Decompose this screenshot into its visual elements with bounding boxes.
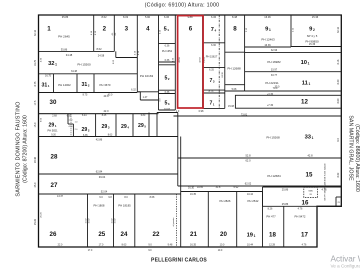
svg-text:17.5: 17.5 xyxy=(34,100,37,105)
boundary parcels 5-6 xyxy=(174,15,176,110)
svg-text:42.86: 42.86 xyxy=(96,138,103,142)
boundary parcels 6-7 (under red) xyxy=(202,15,204,108)
svg-text:PH 12463: PH 12463 xyxy=(261,38,275,42)
svg-text:6.80: 6.80 xyxy=(141,115,146,117)
svg-text:12.28: 12.28 xyxy=(269,243,276,246)
row 11 bottom line xyxy=(245,90,342,92)
svg-text:10.02: 10.02 xyxy=(111,218,113,224)
svg-text:26: 26 xyxy=(50,231,57,238)
boundary parcels 1-2 xyxy=(93,15,95,51)
parcel 32 row bottom line xyxy=(39,73,138,75)
svg-text:35.86: 35.86 xyxy=(61,47,68,51)
svg-text:9.0: 9.0 xyxy=(148,250,152,252)
parcel 16 bottom line xyxy=(263,205,342,207)
boundary 24-22 xyxy=(134,194,136,247)
svg-text:6.36: 6.36 xyxy=(211,44,216,47)
boundary parcels 3-4 xyxy=(136,15,138,92)
dashed line in 29 row xyxy=(70,114,72,137)
svg-text:76: 76 xyxy=(337,202,340,204)
svg-text:4: 4 xyxy=(146,26,150,33)
svg-text:PH 22191: PH 22191 xyxy=(265,81,279,85)
svg-text:32.16: 32.16 xyxy=(34,29,37,36)
svg-text:18: 18 xyxy=(269,232,276,239)
svg-text:43.8: 43.8 xyxy=(103,94,109,98)
svg-text:2.68: 2.68 xyxy=(52,115,57,117)
svg-text:29 2: 29 2 xyxy=(82,127,90,133)
svg-text:PH 19268: PH 19268 xyxy=(266,136,280,140)
svg-text:S/E PH DESIGNAN ESE N DE CALLE: S/E PH DESIGNAN ESE N DE CALLE xyxy=(324,163,327,201)
svg-text:9.0: 9.0 xyxy=(160,98,162,102)
svg-text:42.0: 42.0 xyxy=(103,109,109,113)
svg-text:8.68: 8.68 xyxy=(150,196,155,199)
svg-text:2: 2 xyxy=(103,26,107,33)
svg-text:29 3: 29 3 xyxy=(102,124,110,130)
step box under PH 10163 xyxy=(137,91,140,93)
svg-text:35.86: 35.86 xyxy=(62,15,69,19)
svg-text:42.59: 42.59 xyxy=(200,56,202,62)
svg-text:7 3: 7 3 xyxy=(209,78,214,84)
svg-text:8.0: 8.0 xyxy=(337,138,340,142)
jagged boundary 29-1 29-2 xyxy=(67,114,69,124)
svg-text:PH 16982: PH 16982 xyxy=(267,60,281,64)
svg-text:25.86: 25.86 xyxy=(282,188,289,192)
svg-text:16.35: 16.35 xyxy=(190,243,197,246)
svg-text:6.92: 6.92 xyxy=(234,186,239,189)
svg-text:42.8: 42.8 xyxy=(307,153,313,157)
boundary parcels 8-9 xyxy=(244,15,246,91)
svg-text:17: 17 xyxy=(301,232,308,239)
parcel 1 bottom line xyxy=(39,50,94,52)
svg-text:27: 27 xyxy=(51,182,58,189)
boundary 31-2 right xyxy=(93,74,95,93)
svg-text:8.0: 8.0 xyxy=(124,196,128,199)
svg-text:5.08: 5.08 xyxy=(232,88,237,91)
svg-text:10.02: 10.02 xyxy=(88,218,90,224)
svg-text:15: 15 xyxy=(306,172,313,179)
boundary parcels 9-1 9-2 xyxy=(290,15,292,47)
svg-text:6.36: 6.36 xyxy=(164,15,170,19)
svg-text:33 1: 33 1 xyxy=(305,135,314,141)
svg-text:4.76: 4.76 xyxy=(302,243,307,246)
line under PH 12688 xyxy=(225,90,245,92)
svg-text:31 2: 31 2 xyxy=(82,82,90,88)
parcel 5 subdivision line 3 xyxy=(159,64,176,66)
svg-text:PH 10163: PH 10163 xyxy=(140,74,154,78)
parcel 16 top line xyxy=(263,186,342,188)
svg-text:9.8: 9.8 xyxy=(108,196,112,199)
svg-text:62.02: 62.02 xyxy=(245,182,252,186)
svg-text:SM0: SM0 xyxy=(308,191,313,193)
parcel 15 left boundary xyxy=(177,158,179,186)
svg-text:15.0: 15.0 xyxy=(34,122,37,127)
parcel 5 subdivision line 4 xyxy=(159,89,176,91)
svg-text:8.45: 8.45 xyxy=(102,115,107,117)
svg-text:PH 9472: PH 9472 xyxy=(295,215,306,219)
row 10 top line xyxy=(245,52,342,54)
svg-text:8.75: 8.75 xyxy=(83,93,88,96)
svg-text:1.0: 1.0 xyxy=(75,122,79,124)
svg-text:8.63: 8.63 xyxy=(108,135,113,137)
svg-text:7 4: 7 4 xyxy=(211,27,217,33)
svg-text:52.04: 52.04 xyxy=(101,190,108,194)
parcel 31 row bottom line xyxy=(39,92,138,94)
svg-text:29 4: 29 4 xyxy=(121,124,129,130)
svg-text:PH 15627: PH 15627 xyxy=(206,55,218,59)
parcel 27 bottom line xyxy=(39,193,181,195)
svg-text:6.36: 6.36 xyxy=(165,59,170,62)
svg-text:8.33: 8.33 xyxy=(123,15,129,19)
svg-text:4.16: 4.16 xyxy=(138,50,140,55)
svg-text:9 1: 9 1 xyxy=(265,27,271,33)
svg-text:9.0: 9.0 xyxy=(148,243,152,246)
svg-text:4.14: 4.14 xyxy=(91,30,93,35)
svg-text:22: 22 xyxy=(153,231,160,238)
svg-text:5 1: 5 1 xyxy=(164,27,170,33)
svg-text:8.75: 8.75 xyxy=(34,81,37,86)
svg-text:12: 12 xyxy=(301,99,308,106)
svg-text:6.36: 6.36 xyxy=(165,45,170,48)
parcel 29 row top line xyxy=(39,113,158,115)
svg-text:4.76: 4.76 xyxy=(298,208,303,211)
svg-text:31.8: 31.8 xyxy=(216,186,221,189)
svg-text:PH 2826: PH 2826 xyxy=(220,199,231,203)
red highlight parcel 6 outline xyxy=(178,16,204,108)
boundary 29-2 right xyxy=(95,114,97,137)
parcel 7 subdivision line 1 xyxy=(203,42,225,44)
svg-text:8.30: 8.30 xyxy=(337,79,340,84)
step under parcel 2 xyxy=(115,51,117,57)
svg-text:6: 6 xyxy=(189,26,193,33)
svg-text:8.16: 8.16 xyxy=(337,59,340,64)
svg-text:1.10: 1.10 xyxy=(69,120,74,122)
boundary parcels 7-8 xyxy=(224,15,226,108)
svg-text:34.48: 34.48 xyxy=(71,70,78,73)
boundary parcels 4-5 xyxy=(158,15,160,110)
svg-text:PH 14002: PH 14002 xyxy=(58,83,71,87)
parcel 9-2 bottom line xyxy=(291,46,341,48)
parcel 7 subdivision line 4 xyxy=(203,92,225,94)
svg-text:8.44: 8.44 xyxy=(82,115,87,117)
parcel 7 subdivision line 3 xyxy=(203,89,225,91)
svg-text:5 2: 5 2 xyxy=(164,76,169,82)
svg-text:25: 25 xyxy=(98,231,105,238)
boundary 22-21 xyxy=(180,137,182,248)
boundary 18-17 xyxy=(283,206,285,247)
svg-text:62.0: 62.0 xyxy=(245,159,251,163)
svg-text:16.30: 16.30 xyxy=(188,186,195,189)
parcel 16 dashed annex box xyxy=(304,187,318,197)
svg-text:10.63: 10.63 xyxy=(164,108,171,111)
svg-text:PH 1808: PH 1808 xyxy=(94,204,105,208)
svg-text:29 1: 29 1 xyxy=(49,123,57,129)
boundary 31 middle xyxy=(76,74,78,93)
lot PH 10163 bottom line xyxy=(137,91,158,93)
svg-text:9.30: 9.30 xyxy=(51,135,56,137)
svg-text:PH 2542: PH 2542 xyxy=(248,199,259,203)
svg-text:62.84: 62.84 xyxy=(96,169,103,173)
boundary 21-20 xyxy=(207,192,209,248)
dash-dot line inside parcel 7 column xyxy=(218,15,220,108)
parcel 33 left boundary xyxy=(177,113,179,159)
svg-text:16.75: 16.75 xyxy=(34,59,37,66)
parcel 15 bottom line xyxy=(178,185,341,187)
svg-text:24: 24 xyxy=(121,231,128,238)
svg-text:15.08: 15.08 xyxy=(228,105,235,108)
parcel 5 subdivision line 1 xyxy=(159,43,176,45)
svg-text:8.62: 8.62 xyxy=(96,47,102,51)
svg-text:30: 30 xyxy=(50,99,57,106)
svg-text:9.63: 9.63 xyxy=(41,117,43,122)
parcel 29 row top line right part xyxy=(157,112,178,114)
boundary 29-3 right xyxy=(115,114,117,137)
svg-text:32 1: 32 1 xyxy=(48,61,57,67)
parcel 3 bottom line xyxy=(116,57,138,59)
svg-text:6.36: 6.36 xyxy=(165,91,170,94)
svg-text:17.0: 17.0 xyxy=(99,243,104,246)
svg-text:PH 5821: PH 5821 xyxy=(47,128,58,132)
svg-text:16: 16 xyxy=(302,200,309,207)
svg-text:22.0: 22.0 xyxy=(58,243,63,246)
parcel 33 bottom line xyxy=(178,157,341,159)
svg-text:4.1: 4.1 xyxy=(115,32,117,36)
svg-text:33.97: 33.97 xyxy=(271,68,278,71)
svg-text:2.12: 2.12 xyxy=(293,27,295,32)
svg-text:+7.30: +7.30 xyxy=(267,104,274,107)
svg-text:5 3: 5 3 xyxy=(164,100,169,106)
svg-text:25.26: 25.26 xyxy=(34,218,37,225)
svg-text:25.0: 25.0 xyxy=(34,182,37,187)
svg-text:4.1: 4.1 xyxy=(112,32,114,36)
parcel 7 bottom line xyxy=(203,107,225,109)
parcel 16 left boundary xyxy=(262,187,264,206)
svg-text:70.0: 70.0 xyxy=(273,87,278,90)
svg-text:19 1: 19 1 xyxy=(247,233,256,239)
svg-text:1.47: 1.47 xyxy=(143,96,148,99)
parcel 9-1 bottom line xyxy=(245,46,291,48)
svg-text:PH 12684: PH 12684 xyxy=(267,174,281,178)
svg-text:8.62: 8.62 xyxy=(101,15,107,19)
svg-text:PH 15500: PH 15500 xyxy=(77,63,91,67)
svg-text:6.02: 6.02 xyxy=(113,59,115,64)
parcel 7 subdivision line 2 xyxy=(203,67,225,69)
svg-text:28: 28 xyxy=(51,154,58,161)
svg-text:10.0: 10.0 xyxy=(220,243,225,246)
svg-text:8: 8 xyxy=(233,26,237,33)
svg-text:7 1: 7 1 xyxy=(209,101,214,107)
svg-text:33.77: 33.77 xyxy=(271,74,278,77)
svg-text:32.16: 32.16 xyxy=(337,26,340,33)
svg-text:3: 3 xyxy=(125,26,129,33)
svg-text:26: 26 xyxy=(309,194,312,196)
svg-text:16.35: 16.35 xyxy=(190,193,197,196)
svg-text:39.04: 39.04 xyxy=(99,175,106,179)
svg-text:21.53: 21.53 xyxy=(204,56,206,62)
parcel 2 bottom line xyxy=(94,50,115,52)
svg-text:10.65: 10.65 xyxy=(197,186,204,189)
svg-text:4.10: 4.10 xyxy=(95,30,97,35)
svg-text:10.0: 10.0 xyxy=(218,250,223,252)
boundary 25-24 xyxy=(113,194,115,247)
svg-text:16.36: 16.36 xyxy=(264,44,271,47)
parcel 28 bottom line xyxy=(39,173,178,175)
svg-text:SAN MARTIN GRAL. JOSE: SAN MARTIN GRAL. JOSE xyxy=(348,115,354,181)
parcel 5 subdivision line 5 xyxy=(159,93,176,95)
boundary 31-1 right xyxy=(53,74,55,93)
svg-text:8.60: 8.60 xyxy=(337,98,340,103)
svg-text:31 1: 31 1 xyxy=(42,83,50,89)
parcel 30 bottom line xyxy=(39,113,159,115)
svg-text:10.02: 10.02 xyxy=(115,218,117,224)
line under red parcel (33 top) xyxy=(174,115,342,117)
parcel 12 box xyxy=(235,95,341,108)
svg-text:PH 3670: PH 3670 xyxy=(100,83,111,87)
svg-text:SARMIENTO DOMINGO FAUSTINO: SARMIENTO DOMINGO FAUSTINO xyxy=(16,101,22,197)
svg-text:PH 1352: PH 1352 xyxy=(162,49,173,53)
svg-text:15.36: 15.36 xyxy=(309,43,316,46)
svg-text:+3.30: +3.30 xyxy=(267,93,274,96)
lot PH 12688 bottom line xyxy=(225,84,245,86)
svg-text:4.33: 4.33 xyxy=(41,57,43,62)
svg-text:52.8: 52.8 xyxy=(245,153,251,157)
row 10-11 boundary line xyxy=(245,71,342,73)
svg-text:6.0: 6.0 xyxy=(99,196,103,199)
svg-text:PH 477: PH 477 xyxy=(266,215,276,219)
svg-text:20: 20 xyxy=(220,231,227,238)
svg-text:6.35: 6.35 xyxy=(67,115,72,117)
svg-text:25.26: 25.26 xyxy=(41,211,43,217)
svg-text:21: 21 xyxy=(190,231,197,238)
svg-text:6.35: 6.35 xyxy=(209,69,214,72)
svg-text:29 5: 29 5 xyxy=(138,123,146,129)
svg-text:43.59: 43.59 xyxy=(179,56,181,62)
svg-text:24.36: 24.36 xyxy=(222,71,224,77)
parcel 5 subdivision line 2 xyxy=(159,61,176,63)
svg-text:10.02: 10.02 xyxy=(85,218,87,224)
svg-text:4.10: 4.10 xyxy=(69,126,74,128)
svg-text:13.37: 13.37 xyxy=(57,195,64,198)
svg-text:17.0: 17.0 xyxy=(88,250,93,252)
boundary 29 right strip xyxy=(156,113,158,137)
bottom row top line right of 22 xyxy=(181,191,263,193)
svg-text:10.44: 10.44 xyxy=(247,193,254,196)
svg-text:al puente: al puente xyxy=(172,217,175,227)
svg-text:25.86: 25.86 xyxy=(282,202,289,206)
svg-text:(Código: 69100) Altura: 1000: (Código: 69100) Altura: 1000 xyxy=(145,3,220,9)
svg-text:10.44: 10.44 xyxy=(247,243,254,246)
svg-text:5.90: 5.90 xyxy=(145,15,151,19)
boundary 19-18 xyxy=(262,192,264,248)
svg-text:6.32: 6.32 xyxy=(131,89,136,92)
svg-text:32.96: 32.96 xyxy=(271,49,278,52)
svg-text:PH 18185: PH 18185 xyxy=(118,204,131,208)
svg-text:5.15: 5.15 xyxy=(160,29,162,34)
svg-text:9 2: 9 2 xyxy=(309,27,315,33)
svg-text:0.98: 0.98 xyxy=(199,110,204,113)
svg-text:4.16: 4.16 xyxy=(135,50,137,55)
svg-text:8.63: 8.63 xyxy=(122,243,127,246)
svg-text:1: 1 xyxy=(47,26,51,33)
boundary 29-4 right xyxy=(132,114,134,137)
svg-text:PELLEGRINI CARLOS: PELLEGRINI CARLOS xyxy=(151,258,207,264)
svg-text:SP 4 y 5: SP 4 y 5 xyxy=(307,34,318,38)
svg-text:16.75: 16.75 xyxy=(45,75,52,78)
svg-text:Ve a Configuración para activa: Ve a Configuración para activar xyxy=(331,264,360,269)
svg-text:8.02: 8.02 xyxy=(337,172,340,177)
parcel 29 row bottom line xyxy=(39,136,178,138)
svg-text:6.35: 6.35 xyxy=(83,135,88,137)
boundary 20-19 xyxy=(236,192,238,248)
boundary 29-5 right xyxy=(148,113,150,137)
parcel 5 bottom line xyxy=(159,109,176,111)
parcel 8 bottom line xyxy=(225,51,245,53)
svg-text:8.26: 8.26 xyxy=(268,208,273,211)
svg-text:15.36: 15.36 xyxy=(312,15,319,19)
dotted line in 22 xyxy=(176,194,178,247)
svg-text:4.33: 4.33 xyxy=(172,57,174,62)
svg-text:16.36: 16.36 xyxy=(264,15,271,19)
svg-text:34.48: 34.48 xyxy=(66,53,73,57)
svg-text:6.36: 6.36 xyxy=(211,15,217,19)
svg-text:Activar Windows: Activar Windows xyxy=(331,255,360,264)
svg-text:11 1: 11 1 xyxy=(302,81,311,87)
boundary parcels 2-3 xyxy=(113,15,115,51)
svg-text:2.0: 2.0 xyxy=(75,129,79,131)
svg-text:10 1: 10 1 xyxy=(301,60,310,66)
svg-text:(Código: 86800) Altura: 1600: (Código: 86800) Altura: 1600 xyxy=(354,124,360,192)
parcel 16 right small box xyxy=(335,197,337,206)
svg-text:24.58: 24.58 xyxy=(98,54,105,58)
svg-text:29.38: 29.38 xyxy=(34,156,37,163)
svg-text:3.12: 3.12 xyxy=(246,27,248,32)
svg-text:8.73: 8.73 xyxy=(209,90,214,93)
svg-text:PH 12688: PH 12688 xyxy=(227,67,241,71)
svg-text:(Código: 87200) Altura: 1600: (Código: 87200) Altura: 1600 xyxy=(23,115,29,183)
block outline border xyxy=(39,15,342,247)
svg-text:8.48: 8.48 xyxy=(232,15,238,19)
svg-text:9.48: 9.48 xyxy=(168,243,173,246)
svg-text:PH 2645: PH 2645 xyxy=(58,35,70,39)
boundary 26-25 xyxy=(87,194,89,247)
